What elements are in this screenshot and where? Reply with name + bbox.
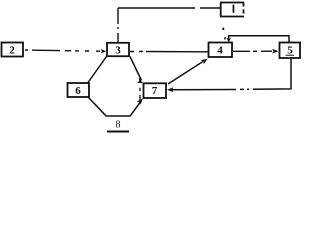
octagon top-right edge (box 3 to box 7) [130, 57, 142, 81]
arrowhead into box 7 top-left [137, 78, 143, 84]
node 8 label [107, 120, 129, 133]
box 3 [107, 43, 129, 57]
svg-text:2: 2 [9, 45, 15, 57]
dotted wire box 1 to box 4 [222, 28, 225, 40]
svg-text:3: 3 [115, 45, 121, 57]
wire vertical into box 3 top (dash-dot) [117, 8, 119, 42]
diagonal wire box 7 to box 4 with arrow [168, 62, 203, 85]
octagon bottom edge [106, 115, 131, 117]
octagon top-left edge (box 3 to box 6) [88, 57, 107, 83]
octagon bottom-left edge (box 6 to bottom) [89, 98, 107, 116]
dash-dot wire box 4 to box 5 with arrow [233, 50, 272, 52]
dashed wire box 2 to box 3 with arrow [25, 50, 100, 51]
box 2 [1, 43, 23, 57]
svg-text:6: 6 [75, 85, 81, 97]
dash-dot wire box 3 to box 4 [130, 51, 208, 53]
box 1 [220, 3, 244, 17]
box 4 [209, 43, 233, 58]
wire box 5 bottom down then left to box 7 with arrow [172, 59, 291, 90]
box 7 [144, 83, 167, 98]
wire from box 3 top to box 1 (horizontal y=8) [118, 7, 220, 9]
box 5 [280, 43, 301, 59]
arrowhead into box 7 bottom-left [137, 99, 143, 105]
svg-text:4: 4 [217, 45, 223, 57]
box 6 [68, 83, 90, 97]
svg-text:8: 8 [116, 120, 121, 131]
dashed vertical at octagon right side behind box 7 [139, 78, 141, 101]
octagon bottom-right edge (bottom to box 7) [130, 101, 142, 117]
svg-text:7: 7 [152, 85, 158, 97]
feedback wire box 5 top to box 4 top with arrow [229, 36, 289, 42]
